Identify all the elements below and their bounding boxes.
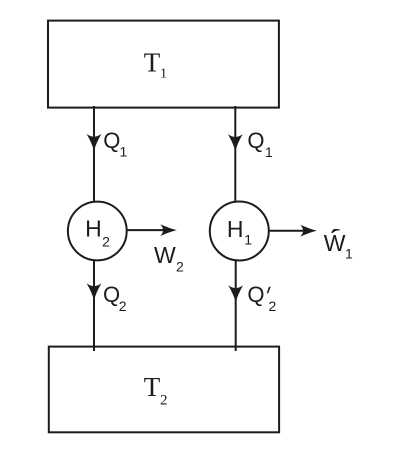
engine H2 circle (68, 202, 127, 261)
svg-text:1: 1 (120, 143, 128, 159)
label Q1 left (103, 128, 127, 160)
label Q1 right (247, 128, 273, 160)
wire T1 to H2 (93, 106, 95, 202)
svg-text:Q: Q (247, 128, 264, 153)
label H1 (227, 216, 252, 247)
label W2 (154, 242, 184, 275)
prime mark of Q'2 (267, 287, 271, 294)
svg-text:1: 1 (244, 231, 252, 247)
svg-text:T: T (144, 47, 161, 77)
accent over W1 (331, 229, 340, 233)
svg-text:T: T (144, 372, 161, 402)
label H2 (85, 216, 110, 250)
svg-text:1: 1 (265, 144, 273, 160)
svg-text:2: 2 (119, 298, 127, 314)
label Q'2 (247, 282, 276, 314)
reservoir T1 box (48, 21, 279, 108)
arrowhead Q1 left (87, 134, 102, 151)
arrowhead Q2' (228, 285, 243, 302)
label Q2 (103, 282, 127, 314)
arrowhead Q1 right (228, 134, 243, 151)
svg-text:W: W (154, 242, 176, 268)
svg-text:H: H (85, 216, 102, 242)
svg-text:2: 2 (160, 392, 168, 408)
svg-text:H: H (227, 216, 244, 242)
arrowhead W2 (160, 224, 177, 236)
svg-text:2: 2 (176, 259, 184, 275)
wire W2 output (128, 229, 164, 231)
wire H1 to T2 (235, 260, 237, 351)
label W1 (324, 230, 353, 261)
svg-text:1: 1 (160, 67, 167, 82)
label T1 (144, 47, 167, 81)
svg-text:2: 2 (269, 298, 277, 314)
svg-text:1: 1 (345, 245, 353, 261)
wire T1 to H1 (234, 106, 236, 202)
arrowhead W1 (300, 225, 317, 237)
svg-text:Q: Q (103, 128, 120, 153)
engine H1 circle (210, 202, 269, 261)
wire H2 to T2 (93, 260, 95, 351)
wire W1 output (270, 230, 304, 232)
reservoir T2 box (49, 347, 279, 433)
label T2 (144, 372, 168, 408)
svg-text:2: 2 (102, 233, 110, 249)
svg-text:Q: Q (103, 282, 120, 307)
arrowhead Q2 (87, 283, 102, 300)
svg-text:W: W (324, 230, 346, 256)
svg-text:Q: Q (247, 282, 264, 307)
